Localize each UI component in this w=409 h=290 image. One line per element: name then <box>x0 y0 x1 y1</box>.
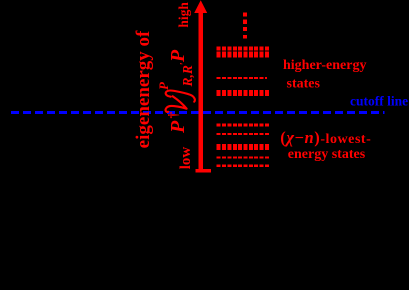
svg-text:cutoff line: cutoff line <box>350 94 408 109</box>
svg-text:P: P <box>167 49 189 63</box>
vertical ellipsis dots <box>243 13 247 39</box>
energy level row 10 (thin) <box>217 164 270 167</box>
svg-text:energy states: energy states <box>288 147 366 162</box>
axis formula: P† H^P_{R,R'} P (rotated) <box>156 49 195 134</box>
axis arrow base bar <box>195 169 211 172</box>
svg-text:eigenenergy of: eigenenergy of <box>133 30 154 148</box>
svg-text:(χ−n)-lowest-: (χ−n)-lowest- <box>280 128 371 147</box>
axis arrow shaft <box>198 12 203 171</box>
energy level row 9 (thin) <box>217 157 270 159</box>
energy level row 5 (thick band) <box>217 90 270 96</box>
energy level row 4 (thin) <box>217 77 267 79</box>
axis arrow head <box>194 0 207 13</box>
svg-text:P: P <box>167 120 189 134</box>
energy level row 8 (thick band) <box>217 144 270 150</box>
svg-text:high: high <box>176 2 191 28</box>
svg-text:low: low <box>178 147 194 170</box>
svg-text:R,R′: R,R′ <box>179 62 195 87</box>
cutoff line (blue dashed) <box>11 111 385 114</box>
energy level row 6 (thin) <box>217 124 270 127</box>
energy level row 7 (thin) <box>217 133 270 135</box>
svg-text:higher-energy: higher-energy <box>283 58 366 73</box>
energy level row 2 (thin) <box>217 49 270 51</box>
energy level row 3 (thick band) <box>217 52 270 58</box>
formula script H (drawn path) <box>166 90 195 111</box>
svg-text:states: states <box>287 77 321 92</box>
svg-text:P: P <box>156 81 171 90</box>
energy level row 1 (thin) <box>217 47 270 49</box>
